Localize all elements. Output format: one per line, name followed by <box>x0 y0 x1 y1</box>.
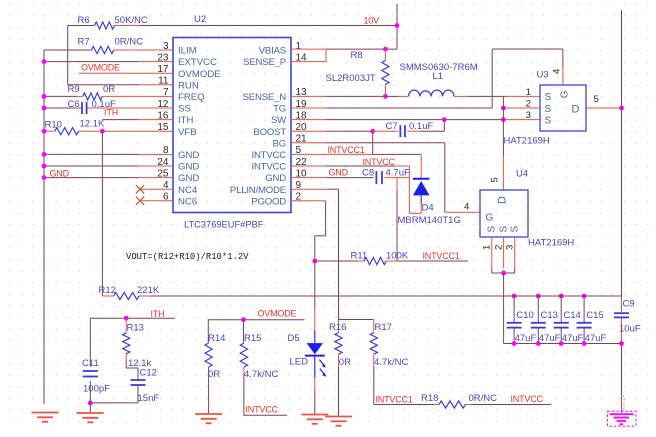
svg-text:3: 3 <box>526 110 531 121</box>
svg-text:R11: R11 <box>351 251 368 262</box>
svg-text:GND: GND <box>178 150 199 161</box>
svg-text:221K: 221K <box>137 285 160 296</box>
label INTVCC bottom right <box>511 394 544 404</box>
resistor R17 <box>370 320 377 405</box>
LED D5 <box>305 311 325 415</box>
svg-text:C8: C8 <box>362 168 374 179</box>
label R6 <box>78 15 90 26</box>
wire R10 to VFB pin 15 <box>42 129 173 134</box>
resistor R18 <box>439 401 465 408</box>
ground D5 <box>301 415 328 424</box>
label 47uF C13 <box>539 333 561 344</box>
wire R18 right <box>465 404 551 406</box>
label 4.7k/NC R15 <box>244 369 278 380</box>
svg-text:C10: C10 <box>516 310 533 321</box>
svg-text:D: D <box>572 104 580 116</box>
capacitor C7 <box>400 125 405 137</box>
label 0R R14 <box>208 369 220 380</box>
capacitor C10 47uF <box>507 294 522 346</box>
wire INTVCC1 pin 5 to BOOST/D4 <box>291 131 421 179</box>
U2 part number LTC3769EUF#PBF <box>184 220 264 230</box>
svg-text:TG: TG <box>273 104 286 115</box>
resistor R15 <box>240 320 287 416</box>
label D5 <box>288 333 300 344</box>
label 0R/NC R18 <box>469 393 498 404</box>
svg-text:BOOST: BOOST <box>253 127 286 138</box>
svg-text:SL2R003JT: SL2R003JT <box>326 73 376 84</box>
capacitor C14 47uF <box>554 294 569 346</box>
U3 pin number 5 <box>594 94 599 105</box>
svg-text:47uF: 47uF <box>585 333 607 344</box>
label R16 <box>329 322 346 333</box>
wire BG pin 21 to U4 gate <box>291 143 480 213</box>
wire NC4 pin stub with no-connect <box>136 185 173 193</box>
label 10V <box>364 16 380 26</box>
label 12.1K <box>80 119 105 130</box>
svg-text:NC6: NC6 <box>178 196 197 207</box>
svg-text:R12: R12 <box>99 285 116 296</box>
svg-text:INTVCC: INTVCC <box>251 150 286 161</box>
svg-text:S: S <box>509 226 520 233</box>
label R7 <box>78 37 90 48</box>
label R9 <box>68 84 80 95</box>
label 0R <box>103 84 115 95</box>
svg-text:100pF: 100pF <box>83 384 110 395</box>
label OVMODE bottom <box>258 309 297 319</box>
resistor R12 <box>102 292 150 299</box>
capacitor C13 47uF <box>531 294 546 346</box>
svg-text:PLLIN/MODE: PLLIN/MODE <box>230 185 286 196</box>
svg-text:47uF: 47uF <box>562 333 584 344</box>
capacitor C11 <box>83 318 98 405</box>
label C14 <box>563 310 580 321</box>
svg-text:INTVCC: INTVCC <box>246 405 279 415</box>
svg-text:R6: R6 <box>78 15 90 26</box>
label R15 <box>244 333 261 344</box>
svg-text:S: S <box>545 104 552 115</box>
wire U3 drain pin 5 to VOUT rail <box>586 106 624 111</box>
svg-text:C7: C7 <box>386 121 398 132</box>
resistor R13 <box>123 318 138 380</box>
label 221K <box>137 285 160 296</box>
wire GND pin 25 <box>42 175 173 180</box>
label C11 <box>82 358 99 369</box>
wire OVMODE pin 17 stub <box>79 72 173 74</box>
svg-text:4.7k/NC: 4.7k/NC <box>244 369 278 380</box>
label 0R R16 <box>339 357 351 368</box>
label U3 <box>537 70 549 81</box>
wire C6 to SS pin 12 <box>42 106 173 111</box>
svg-text:R16: R16 <box>329 322 346 333</box>
label HAT2169H U3 <box>504 136 550 147</box>
svg-text:C9: C9 <box>623 299 635 310</box>
label INTVCC1 pin5 <box>328 145 365 155</box>
svg-text:NC4: NC4 <box>178 185 198 196</box>
label SL2R003JT <box>326 73 376 84</box>
resistor R16 <box>335 320 374 417</box>
transistor U3 HAT2169H <box>540 85 586 131</box>
label INTVCC1 R11 <box>423 251 460 261</box>
svg-text:R13: R13 <box>127 323 144 334</box>
wire OVMODE net bottom <box>208 317 304 322</box>
wire SENSE_N pin 13 to L1 <box>291 94 409 99</box>
svg-text:SENSE_P: SENSE_P <box>243 57 286 68</box>
label U4 gate pin number 4 <box>464 202 470 213</box>
label 0R/NC <box>115 37 144 48</box>
label OVMODE top <box>81 63 120 73</box>
label D4 <box>422 203 434 214</box>
label C6 <box>68 99 80 110</box>
label L1 <box>433 71 444 82</box>
svg-text:5: 5 <box>594 94 599 105</box>
label 10uF <box>619 324 641 335</box>
resistor R7 <box>92 46 114 53</box>
svg-text:INTVCC1: INTVCC1 <box>376 395 413 405</box>
svg-text:4.7k/NC: 4.7k/NC <box>374 357 408 368</box>
label R10 <box>45 120 62 131</box>
label C12 <box>140 368 157 379</box>
svg-text:D: D <box>497 196 509 204</box>
wire R9 to FREQ pin 7 <box>42 94 173 99</box>
label INTVCC R15 <box>246 405 279 415</box>
svg-text:OVMODE: OVMODE <box>81 63 120 73</box>
label 47uF C15 <box>585 333 607 344</box>
svg-text:LTC3769EUF#PBF: LTC3769EUF#PBF <box>184 220 264 230</box>
resistor R11 <box>315 257 468 264</box>
svg-text:10V: 10V <box>364 16 380 26</box>
U3 pin number 4 rotated <box>552 68 563 74</box>
capacitor C6 <box>82 102 87 114</box>
wire EXTVCC pin 23 to rail <box>42 59 173 64</box>
svg-text:BG: BG <box>273 138 286 149</box>
wire U4 source pins to ground bus <box>492 237 515 344</box>
svg-text:C15: C15 <box>586 310 603 321</box>
label C8 <box>362 168 374 179</box>
wire PLLIN/MODE pin 9 down <box>291 189 339 319</box>
wire R7 right to pin 3 ILIM <box>114 49 173 51</box>
svg-text:SENSE_N: SENSE_N <box>243 92 287 103</box>
capacitor C8 <box>376 171 382 184</box>
svg-text:R10: R10 <box>45 120 62 131</box>
svg-text:S: S <box>545 115 552 126</box>
label U4 <box>516 169 528 180</box>
label ITH pin16 <box>104 108 118 118</box>
label 50K/NC <box>115 15 148 26</box>
svg-text:INTVCC1: INTVCC1 <box>423 251 460 261</box>
label R18 <box>421 393 438 404</box>
wire C8 right down to R11 <box>396 178 398 261</box>
svg-text:GND: GND <box>50 169 70 179</box>
U2 right pin numbers <box>296 41 308 203</box>
label 4.7k/NC R17 <box>374 357 408 368</box>
wire PGOOD pin 2 down to LED <box>291 201 326 311</box>
label C10 <box>516 310 533 321</box>
svg-text:0R: 0R <box>339 357 351 368</box>
svg-text:D5: D5 <box>288 333 300 344</box>
wire ITH pin 16 stub <box>102 119 173 121</box>
U3 pin numbers 1 2 3 <box>526 87 531 121</box>
svg-text:4.7uF: 4.7uF <box>386 168 410 179</box>
svg-text:RUN: RUN <box>178 80 199 91</box>
label 100pF <box>83 384 110 395</box>
wire SW pin 18 row <box>291 117 540 122</box>
label ITH bottom <box>151 309 165 319</box>
wire ITH net <box>90 316 175 321</box>
wire SENSE_P pin 14 step <box>291 49 326 62</box>
svg-text:ITH: ITH <box>151 309 165 319</box>
svg-text:INTVCC: INTVCC <box>251 162 286 173</box>
svg-text:VOUT=(R12+R10)/R10*1.2V: VOUT=(R12+R10)/R10*1.2V <box>126 252 249 262</box>
svg-text:2: 2 <box>493 245 504 250</box>
wire output cap ground bus <box>504 343 622 345</box>
ground rail symbol <box>32 413 59 422</box>
label R17 <box>375 322 392 333</box>
wire VBIAS pin 1 run <box>291 47 397 52</box>
faint watermark squiggle <box>621 394 627 411</box>
svg-text:10uF: 10uF <box>619 324 641 335</box>
svg-text:R14: R14 <box>208 333 225 344</box>
wire NC6 pin stub with no-connect <box>136 197 173 205</box>
svg-text:L1: L1 <box>433 71 444 82</box>
svg-text:EXTVCC: EXTVCC <box>178 57 217 68</box>
svg-text:LED: LED <box>290 357 309 368</box>
svg-text:47uF: 47uF <box>515 333 537 344</box>
svg-text:0R: 0R <box>103 84 115 95</box>
svg-text:U2: U2 <box>194 14 206 25</box>
svg-text:0R/NC: 0R/NC <box>115 37 144 48</box>
svg-text:50K/NC: 50K/NC <box>115 15 148 26</box>
svg-text:ILIM: ILIM <box>178 46 197 57</box>
wire GND pin 24 <box>42 164 173 169</box>
svg-text:GND: GND <box>265 173 286 184</box>
svg-text:SS: SS <box>178 104 191 115</box>
transistor U4 HAT2169H <box>480 190 528 237</box>
label SMMS0630-7R6M <box>400 62 478 73</box>
wire VFB node down to R12 <box>101 131 103 296</box>
label 47uF C14 <box>562 333 584 344</box>
wire INTVCC pin 22 to D4 anode <box>291 166 421 213</box>
svg-text:5: 5 <box>490 177 501 182</box>
svg-text:OVMODE: OVMODE <box>258 309 297 319</box>
ground R16 <box>325 417 352 426</box>
svg-text:HAT2169H: HAT2169H <box>504 136 550 147</box>
wire GND pin 10 with C8 <box>291 177 409 179</box>
LED D5 arrows <box>319 360 326 377</box>
svg-text:HAT2169H: HAT2169H <box>528 238 574 249</box>
svg-text:VBIAS: VBIAS <box>259 46 286 57</box>
svg-text:G: G <box>486 213 494 224</box>
resistor R6 <box>95 22 115 29</box>
svg-text:U4: U4 <box>516 169 528 180</box>
wire TG pin 19 to U3 gate <box>291 49 563 108</box>
svg-text:ITH: ITH <box>104 108 118 118</box>
diode D4 MBRM140T1G <box>413 179 430 214</box>
node 10V junction <box>395 23 400 28</box>
label 12.1k <box>128 358 151 369</box>
wire BOOST pin 20 with C7 <box>291 120 444 134</box>
capacitor C15 47uF <box>577 294 592 346</box>
label R11 <box>351 251 368 262</box>
svg-text:3: 3 <box>504 245 515 250</box>
svg-text:FREQ: FREQ <box>178 92 205 103</box>
svg-text:S: S <box>487 226 498 233</box>
capacitor C9 <box>614 313 629 317</box>
ground C11 <box>77 403 104 422</box>
wire L1 right to U3 source <box>454 95 540 97</box>
label INTVCC1 bottom <box>376 395 413 405</box>
svg-text:G: G <box>560 90 571 98</box>
label 4.7uF C8 <box>386 168 410 179</box>
svg-text:R15: R15 <box>244 333 261 344</box>
ground R14 <box>195 414 222 423</box>
wire 10V net vertical stub <box>396 4 398 49</box>
svg-text:4: 4 <box>552 68 563 74</box>
wire SW to U4 drain vertical <box>502 96 504 190</box>
resistor R8 <box>382 49 389 96</box>
svg-text:INTVCC: INTVCC <box>511 394 544 404</box>
resistor R14 <box>205 320 212 414</box>
wire bottom INTVCC1 net with R18 <box>374 404 439 406</box>
svg-text:100K: 100K <box>386 251 409 262</box>
wire VOUT rail right <box>619 10 624 413</box>
label C15 <box>586 310 603 321</box>
label MBRM140T1G <box>398 215 461 226</box>
U4 pin number 5 rotated <box>490 177 501 182</box>
label GND C8 <box>329 168 349 178</box>
U4 pin numbers 1 2 3 rotated <box>482 245 516 250</box>
wire 10V net horizontal <box>114 25 397 27</box>
wire U3 pin2 stub <box>501 106 540 111</box>
svg-text:OVMODE: OVMODE <box>178 69 221 80</box>
label R12 <box>99 285 116 296</box>
label 0.1uF C7 <box>409 121 433 132</box>
inductor L1 <box>409 90 455 96</box>
svg-text:0.1uF: 0.1uF <box>409 121 433 132</box>
svg-text:S: S <box>498 226 509 233</box>
svg-text:R9: R9 <box>68 84 80 95</box>
svg-text:47uF: 47uF <box>539 333 561 344</box>
VOUT formula note <box>126 252 249 262</box>
label INTVCC pin22 <box>363 157 396 167</box>
label 100K <box>386 251 409 262</box>
svg-text:PGOOD: PGOOD <box>251 196 286 207</box>
wire GND pin 8 <box>42 152 173 157</box>
svg-text:INTVCC1: INTVCC1 <box>328 145 365 155</box>
svg-text:1: 1 <box>526 87 531 98</box>
label 0.1uF C6 <box>92 99 116 110</box>
svg-text:ITH: ITH <box>178 115 194 126</box>
svg-text:1: 1 <box>296 41 302 52</box>
svg-text:GND: GND <box>178 162 199 173</box>
label LED <box>290 357 309 368</box>
svg-text:4: 4 <box>464 202 470 213</box>
label C9 <box>623 299 635 310</box>
svg-text:R8: R8 <box>351 50 363 61</box>
svg-text:4/2/14: 4/2/14 <box>621 394 627 411</box>
svg-text:12.1K: 12.1K <box>80 119 105 130</box>
capacitor C12 <box>90 380 145 403</box>
power ground pink symbol <box>608 411 637 426</box>
wire R6 left to RUN pin <box>68 26 173 85</box>
svg-text:MBRM140T1G: MBRM140T1G <box>398 215 461 226</box>
resistor R10 <box>55 128 79 135</box>
svg-text:C11: C11 <box>82 358 99 369</box>
label R14 <box>208 333 225 344</box>
label 47uF C10 <box>515 333 537 344</box>
svg-text:INTVCC: INTVCC <box>363 157 396 167</box>
svg-text:C13: C13 <box>541 310 558 321</box>
wire R7 left to rail <box>44 49 92 51</box>
svg-text:1: 1 <box>482 245 493 250</box>
svg-text:C14: C14 <box>563 310 580 321</box>
svg-text:GND: GND <box>329 168 349 178</box>
svg-text:0R: 0R <box>208 369 220 380</box>
label C13 <box>541 310 558 321</box>
U2 left pin numbers <box>157 41 169 203</box>
svg-text:15nF: 15nF <box>138 393 160 404</box>
wire left GND rail <box>43 50 45 404</box>
svg-text:U3: U3 <box>537 70 549 81</box>
svg-text:D4: D4 <box>422 203 434 214</box>
svg-text:R7: R7 <box>78 37 90 48</box>
U2 designator label <box>194 14 206 25</box>
label R13 <box>127 323 144 334</box>
svg-text:VFB: VFB <box>178 127 197 138</box>
label GND left <box>50 169 70 179</box>
label HAT2169H U4 <box>528 238 574 249</box>
svg-text:R17: R17 <box>375 322 392 333</box>
svg-text:0R/NC: 0R/NC <box>469 393 498 404</box>
IC U2 LTC3769EUF#PBF main controller <box>173 38 291 213</box>
label C7 <box>386 121 398 132</box>
resistor R9 <box>83 93 102 100</box>
label 15nF <box>138 393 160 404</box>
wire VOUT feedback row <box>150 295 622 297</box>
svg-text:C12: C12 <box>140 368 157 379</box>
svg-text:GND: GND <box>178 173 199 184</box>
svg-text:SW: SW <box>271 115 287 126</box>
svg-text:R18: R18 <box>421 393 438 404</box>
label R8 <box>351 50 363 61</box>
svg-text:S: S <box>545 92 552 103</box>
